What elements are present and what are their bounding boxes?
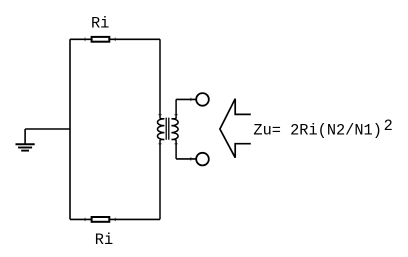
transformer T1 core — [166, 118, 169, 140]
wire secondary bottom to terminal — [176, 158, 196, 160]
wire left rail — [69, 39, 71, 219]
wire secondary top to terminal — [176, 98, 196, 100]
arrow (block arrow pointing left) — [220, 99, 251, 158]
terminal bottom (open circle) — [196, 153, 209, 166]
terminal top (open circle) — [196, 93, 209, 106]
svg-text:Ri: Ri — [91, 14, 109, 32]
wire bottom from left rail to primary rail — [70, 218, 160, 220]
resistor R1 (top Ri) — [92, 37, 110, 42]
transformer T1 primary winding — [157, 39, 164, 219]
svg-text:Zu= 2Ri(N2/N1): Zu= 2Ri(N2/N1) — [253, 121, 382, 139]
wire ground stub to left rail — [25, 128, 70, 130]
wire top from left rail to primary rail — [70, 38, 160, 40]
transformer T1 secondary winding — [171, 99, 178, 158]
resistor R2 (bottom Ri) — [92, 217, 110, 222]
svg-text:Ri: Ri — [95, 231, 113, 249]
pin ticks — [85, 38, 192, 222]
ground — [16, 129, 35, 151]
svg-text:2: 2 — [384, 117, 393, 135]
